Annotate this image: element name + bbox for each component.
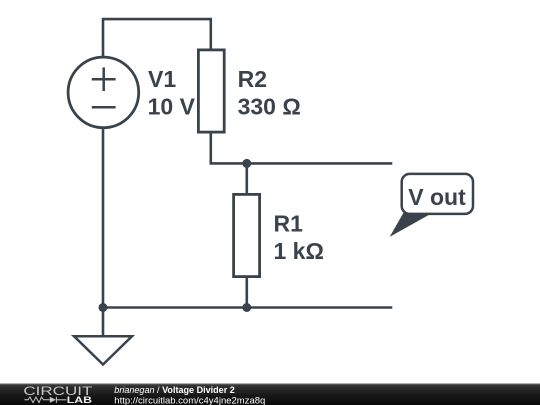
svg-text:330 Ω: 330 Ω bbox=[238, 94, 301, 120]
svg-text:R1: R1 bbox=[274, 211, 304, 237]
svg-text:V out: V out bbox=[408, 184, 466, 210]
svg-text:V1: V1 bbox=[148, 66, 176, 92]
svg-text:LAB: LAB bbox=[67, 395, 93, 405]
svg-text:1 kΩ: 1 kΩ bbox=[274, 238, 324, 264]
svg-text:http://circuitlab.com/c4y4jne2: http://circuitlab.com/c4y4jne2mza8q bbox=[114, 395, 265, 405]
svg-text:R2: R2 bbox=[238, 66, 267, 92]
svg-text:10 V: 10 V bbox=[148, 94, 196, 120]
